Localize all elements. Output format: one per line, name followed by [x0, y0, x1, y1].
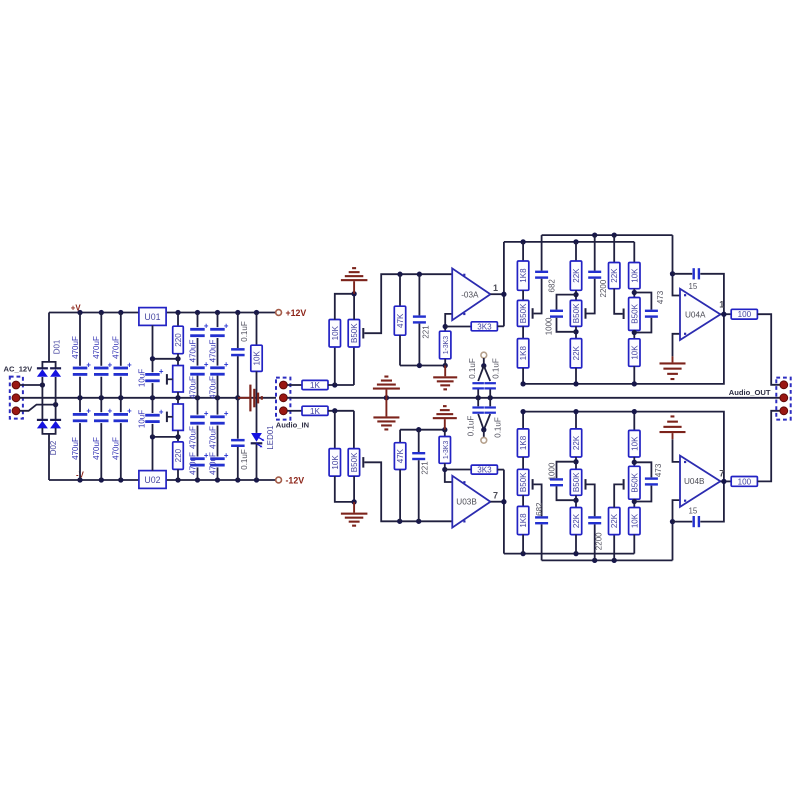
resistor 100 A [731, 309, 757, 319]
capacitor 0.1uF pair upper [483, 358, 485, 366]
wire U04B output [720, 480, 731, 482]
svg-text:B50K: B50K [350, 323, 359, 343]
capacitor 470uF post3 col x=217.5 [217, 398, 219, 415]
resistor 22K B1 [575, 242, 577, 261]
resistor 1K8 A2 [522, 326, 524, 338]
svg-text:470uF: 470uF [208, 340, 217, 363]
ground center double upper [385, 390, 387, 398]
resistor 22K B2 [575, 326, 577, 338]
capacitor 470uF raw+ col x=120.8 [120, 313, 122, 366]
svg-text:+: + [224, 360, 229, 369]
wire D02 anodes to -V [42, 428, 55, 434]
resistor 3K3 feedback lower [445, 469, 471, 471]
capacitor 470uF post1 col x=217.5 [217, 313, 219, 328]
resistor 10K input upper [334, 347, 336, 385]
svg-text:47K: 47K [396, 448, 405, 463]
svg-text:470uF: 470uF [92, 336, 101, 359]
wire U04A + input [673, 235, 681, 295]
svg-text:10uF: 10uF [138, 369, 147, 387]
terminal +12V [276, 310, 282, 316]
svg-text:470uF: 470uF [71, 336, 80, 359]
svg-text:+: + [108, 407, 113, 416]
svg-text:100: 100 [738, 310, 752, 319]
capacitor 470uF post1 col x=197.5 [197, 313, 199, 328]
capacitor 473 A [634, 293, 651, 310]
capacitor 470uF post4 col x=217.5 [217, 467, 219, 480]
wire U04A output [720, 313, 731, 315]
ground under 1-3K3 upper [444, 366, 446, 377]
resistor 1K upper [287, 384, 302, 386]
svg-text:10K: 10K [630, 345, 639, 360]
svg-text:682: 682 [547, 279, 556, 293]
wire U04B + input [673, 500, 681, 560]
wire rail fb lower [542, 559, 673, 561]
svg-text:15: 15 [689, 507, 698, 516]
svg-text:221: 221 [421, 461, 430, 475]
connector Audio_OUT J3 [776, 378, 790, 420]
potentiometer B50K B' [570, 469, 581, 495]
wire AC pin2 to 0V line [20, 397, 276, 399]
capacitor 15 A [673, 273, 693, 275]
wire U01 adj node [152, 325, 154, 358]
svg-text:0.1uF: 0.1uF [468, 358, 477, 379]
resistor 22K C' [613, 535, 615, 561]
resistor 22K B2' [575, 495, 577, 507]
svg-text:+: + [224, 451, 229, 460]
svg-text:0.1uF: 0.1uF [240, 321, 249, 342]
ground U04B [672, 433, 674, 439]
svg-text:+: + [159, 408, 164, 417]
capacitor 15 B [673, 521, 693, 523]
svg-text:1: 1 [719, 299, 724, 309]
svg-text:470uF: 470uF [188, 452, 197, 475]
svg-text:+: + [86, 407, 91, 416]
capacitor 473 B [634, 462, 651, 477]
wire gnd line under 47K [400, 365, 445, 367]
capacitor 470uF post3 col x=197.5 [197, 398, 199, 415]
svg-text:470uF: 470uF [92, 437, 101, 460]
capacitor 470uF raw+ col x=80.0 [79, 313, 81, 366]
op-amp U03A [452, 268, 490, 320]
testpoint upper [481, 352, 487, 358]
svg-text:473: 473 [656, 290, 665, 304]
wire U04B - to ground [673, 439, 681, 462]
svg-text:U04B: U04B [684, 477, 705, 486]
terminal -12V [276, 477, 282, 483]
capacitor 470uF post4 col x=197.5 [197, 467, 199, 480]
svg-text:10K: 10K [630, 268, 639, 283]
svg-text:1-3K3: 1-3K3 [443, 336, 450, 355]
svg-text:22K: 22K [572, 435, 581, 450]
svg-text:B50K: B50K [350, 452, 359, 472]
connector AC_12V J1 [10, 377, 23, 419]
svg-text:10K: 10K [253, 351, 262, 366]
wire D01 cathodes to +V [42, 362, 55, 368]
svg-text:U02: U02 [144, 475, 160, 485]
wire line above 47K lower [400, 429, 445, 431]
svg-text:+: + [127, 360, 132, 369]
op-amp U04B [680, 456, 720, 507]
ground input upper [353, 281, 355, 294]
resistor 1K8 A1' [522, 412, 524, 429]
resistor 1K8 A2' [522, 495, 524, 506]
trimmer pot lower [177, 398, 179, 404]
wire AC pin1 to bridge [20, 384, 43, 386]
svg-text:7: 7 [719, 469, 724, 479]
potentiometer B50K input upper [353, 347, 355, 385]
diode D01 pair [37, 367, 48, 369]
potentiometer B50K A [517, 300, 528, 326]
svg-text:+: + [127, 407, 132, 416]
op-amp U03B [452, 476, 490, 528]
capacitor 221 upper [418, 274, 420, 315]
resistor 1K8 A1 [522, 242, 524, 261]
svg-text:0.1uF: 0.1uF [240, 449, 249, 470]
capacitor 1000' [557, 462, 577, 479]
svg-text:1-3K3: 1-3K3 [443, 441, 450, 460]
svg-text:10K: 10K [630, 436, 639, 451]
capacitor 470uF raw- col x=80.0 [79, 398, 81, 412]
ground U04A [672, 356, 674, 362]
capacitor 470uF raw- col x=101.3 [100, 398, 102, 412]
svg-text:LED01: LED01 [266, 425, 275, 449]
svg-text:470uF: 470uF [188, 426, 197, 449]
svg-text:1000: 1000 [547, 462, 556, 480]
svg-text:1K8: 1K8 [519, 435, 528, 450]
resistor 1-3K3 upper [444, 327, 446, 332]
capacitor 470uF post2 col x=217.5 [217, 376, 219, 398]
svg-text:10K: 10K [630, 513, 639, 528]
wire 100A to Audio_OUT [758, 314, 780, 385]
resistor 220 upper [177, 313, 179, 327]
svg-text:100: 100 [738, 477, 752, 486]
wire rail fb upper [542, 234, 673, 236]
resistor 10K bleeder [256, 313, 258, 346]
svg-text:B50K: B50K [519, 472, 528, 492]
wire wiper to U03B + [364, 462, 452, 521]
svg-text:0.1uF: 0.1uF [494, 417, 503, 438]
ground above 1-3K3 lower [444, 419, 446, 430]
resistor 47K upper [399, 274, 401, 306]
resistor 10K D2 [633, 330, 635, 338]
svg-text:+: + [204, 322, 209, 331]
wire AC pin3 jog to bridge [20, 405, 56, 411]
capacitor 1000 [557, 295, 577, 310]
svg-text:1K: 1K [310, 381, 321, 390]
svg-text:22K: 22K [610, 513, 619, 528]
wire U02 adj node [152, 437, 154, 471]
wire +V rail [49, 312, 139, 314]
svg-text:3K3: 3K3 [477, 322, 492, 331]
svg-text:-03A: -03A [461, 290, 479, 299]
LED01 [251, 433, 262, 442]
resistor 10K D2' [633, 499, 635, 507]
svg-text:2200: 2200 [595, 532, 604, 550]
wire bridge left vertical [41, 377, 43, 419]
capacitor 2200 [594, 235, 596, 271]
potentiometer B50K B [570, 300, 581, 326]
capacitor 0.1uF upper PSU [237, 313, 239, 349]
svg-text:470uF: 470uF [208, 376, 217, 399]
potentiometer B50K D' [629, 466, 640, 499]
capacitor 0.1uF pair lower [477, 398, 479, 407]
svg-text:1: 1 [493, 283, 498, 293]
svg-text:1K8: 1K8 [519, 513, 528, 528]
svg-text:+: + [108, 360, 113, 369]
svg-text:D01: D01 [53, 340, 62, 354]
svg-text:+: + [204, 409, 209, 418]
svg-text:U01: U01 [144, 312, 160, 322]
capacitor 470uF raw+ col x=101.3 [100, 313, 102, 366]
ground center double lower [385, 398, 387, 417]
wire rail U03B out [504, 553, 634, 555]
svg-text:B50K: B50K [519, 303, 528, 323]
resistor 10K D1' [633, 412, 635, 431]
capacitor 682' [541, 524, 543, 560]
svg-text:22K: 22K [572, 345, 581, 360]
svg-text:220: 220 [174, 448, 183, 462]
capacitor 10uF lower [152, 398, 154, 413]
svg-text:7: 7 [493, 491, 498, 501]
svg-text:+: + [224, 409, 229, 418]
svg-text:470uF: 470uF [71, 437, 80, 460]
capacitor 221 lower [418, 430, 420, 452]
svg-text:3K3: 3K3 [477, 466, 492, 475]
wire U04A - to ground [673, 334, 681, 357]
potentiometer B50K A' [517, 469, 528, 495]
capacitor 0.1uF lower PSU [237, 398, 239, 439]
testpoint lower [481, 437, 487, 443]
svg-text:1K8: 1K8 [519, 346, 528, 361]
svg-text:+: + [86, 360, 91, 369]
capacitor 470uF raw- col x=120.8 [120, 398, 122, 412]
svg-text:AC_12V: AC_12V [4, 364, 34, 373]
diode D02 pair [37, 419, 48, 421]
wire rail U03A out [504, 241, 634, 243]
resistor 220 lower [177, 437, 179, 442]
svg-text:470uF: 470uF [112, 437, 121, 460]
wire rail out A [523, 314, 724, 384]
wire bridge right vertical [55, 377, 57, 419]
svg-text:Audio_IN: Audio_IN [276, 421, 309, 430]
ground input lower [353, 502, 355, 513]
trimmer pot upper [177, 359, 179, 366]
wire wiper to U03A + [364, 274, 452, 333]
capacitor 10uF upper [152, 359, 154, 372]
svg-text:47K: 47K [396, 313, 405, 328]
svg-text:221: 221 [421, 325, 430, 339]
wire rail out B [523, 412, 724, 482]
resistor 1-3K3 lower [444, 430, 446, 437]
svg-text:B50K: B50K [630, 472, 639, 492]
svg-text:-12V: -12V [286, 476, 305, 486]
svg-text:22K: 22K [572, 268, 581, 283]
svg-text:10K: 10K [331, 325, 340, 340]
potentiometer B50K D [629, 298, 640, 331]
svg-text:10uF: 10uF [138, 410, 147, 428]
svg-text:1K8: 1K8 [519, 268, 528, 283]
wire U03B output [490, 501, 504, 503]
svg-text:U04A: U04A [685, 310, 706, 319]
wire 0V line middle [287, 397, 780, 399]
svg-text:470uF: 470uF [112, 336, 121, 359]
svg-text:470uF: 470uF [208, 452, 217, 475]
resistor 22K B1' [575, 412, 577, 429]
op-amp U04A [680, 289, 720, 340]
svg-text:U03B: U03B [456, 498, 477, 507]
svg-text:B50K: B50K [572, 303, 581, 323]
resistor 3K3 feedback upper [445, 326, 471, 328]
wire U03A output [490, 293, 504, 295]
resistor 22K C [613, 235, 615, 262]
capacitor 470uF post2 col x=197.5 [197, 376, 199, 398]
svg-text:10K: 10K [331, 455, 340, 470]
svg-text:682: 682 [535, 502, 544, 516]
svg-text:1K: 1K [310, 407, 321, 416]
svg-text:470uF: 470uF [188, 340, 197, 363]
potentiometer B50K input lower [353, 411, 355, 449]
wire U03A inverting node [445, 314, 452, 327]
wire 100B to Audio_OUT [758, 411, 780, 482]
resistor 1K lower [287, 410, 302, 412]
svg-text:+12V: +12V [286, 308, 307, 318]
ground 0V symbol right-pointing [238, 397, 250, 399]
svg-text:0.1uF: 0.1uF [491, 358, 500, 379]
wire -V rail [49, 479, 139, 481]
resistor 47K lower [399, 430, 401, 443]
svg-text:470uF: 470uF [188, 376, 197, 399]
wire U03B inverting node [445, 470, 453, 483]
regulator U01 [139, 308, 166, 326]
capacitor 682 [541, 235, 543, 271]
svg-text:470uF: 470uF [208, 426, 217, 449]
svg-text:2200: 2200 [599, 279, 608, 297]
wire 0V center dots PSU [77, 395, 82, 400]
resistor 10K D1 [633, 242, 635, 263]
connector Audio_IN J2 [276, 378, 290, 420]
capacitor 2200' [594, 524, 596, 560]
svg-text:B50K: B50K [572, 472, 581, 492]
resistor 100 B [731, 477, 757, 487]
svg-text:22K: 22K [610, 268, 619, 283]
svg-text:D02: D02 [49, 441, 58, 455]
svg-text:22K: 22K [572, 513, 581, 528]
svg-text:B50K: B50K [630, 303, 639, 323]
svg-text:220: 220 [174, 333, 183, 347]
svg-text:15: 15 [689, 282, 698, 291]
svg-text:+: + [224, 322, 229, 331]
svg-text:+V: +V [71, 303, 82, 312]
svg-text:473: 473 [654, 463, 663, 477]
svg-text:Audio_OUT: Audio_OUT [729, 388, 771, 397]
svg-text:1000: 1000 [544, 317, 553, 335]
regulator U02 [139, 471, 166, 489]
resistor 10K input lower [334, 411, 336, 449]
svg-text:+: + [159, 367, 164, 376]
svg-text:0.1uF: 0.1uF [466, 416, 475, 437]
